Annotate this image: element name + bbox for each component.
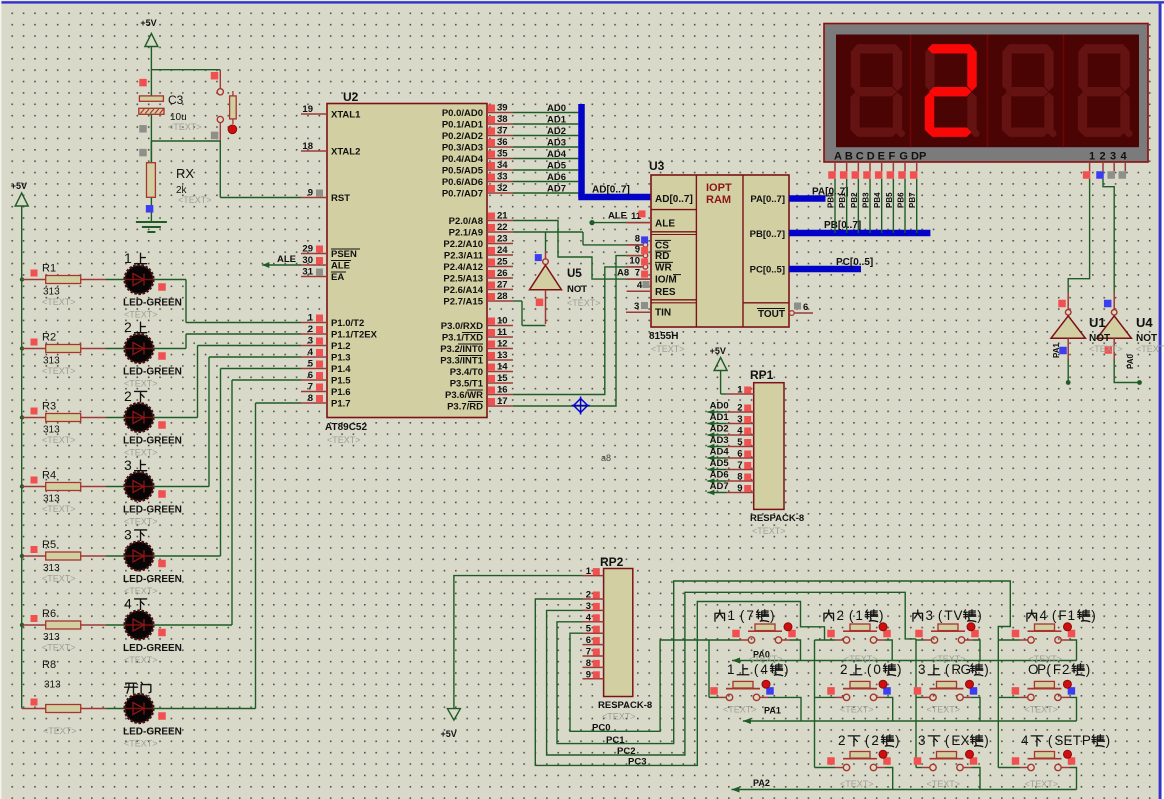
svg-text:ALE: ALE	[608, 211, 627, 222]
svg-text:P2.6/A14: P2.6/A14	[443, 285, 483, 296]
svg-text:8: 8	[586, 658, 591, 669]
svg-text:5: 5	[737, 437, 743, 448]
svg-text:313: 313	[44, 680, 61, 691]
svg-text:P0.0/AD0: P0.0/AD0	[442, 108, 483, 119]
svg-text:7: 7	[746, 608, 754, 623]
svg-text:9: 9	[635, 244, 640, 255]
svg-text:RST: RST	[331, 193, 350, 204]
svg-text:(: (	[1052, 608, 1057, 623]
svg-text:39: 39	[497, 103, 508, 114]
svg-text:+5V: +5V	[11, 181, 27, 191]
svg-text:7: 7	[586, 647, 591, 658]
svg-text:AD4: AD4	[547, 149, 567, 160]
svg-text:13: 13	[497, 350, 508, 361]
svg-text:<TEXT>: <TEXT>	[602, 712, 636, 722]
svg-text:P0.3/AD3: P0.3/AD3	[442, 143, 483, 154]
svg-text:1: 1	[1068, 608, 1076, 623]
svg-text:LED-GREEN: LED-GREEN	[123, 505, 182, 516]
svg-text:E: E	[951, 733, 960, 748]
svg-text:3: 3	[918, 733, 926, 748]
svg-text:(: (	[740, 608, 745, 623]
svg-text:AD2: AD2	[710, 424, 729, 435]
svg-text:P1.1/T2EX: P1.1/T2EX	[331, 330, 378, 341]
svg-text:<TEXT>: <TEXT>	[752, 526, 786, 536]
svg-text:(: (	[1048, 733, 1053, 748]
svg-text:2: 2	[124, 319, 132, 335]
svg-text:1: 1	[855, 608, 863, 623]
svg-text:313: 313	[43, 287, 60, 298]
svg-text:4: 4	[308, 347, 314, 358]
svg-text:RD: RD	[655, 251, 669, 262]
svg-text:PB0: PB0	[827, 192, 836, 208]
svg-text:7: 7	[635, 268, 640, 279]
svg-text:313: 313	[43, 356, 60, 367]
svg-text:19: 19	[302, 104, 313, 115]
svg-text:<TEXT>: <TEXT>	[927, 779, 961, 789]
svg-text:<TEXT>: <TEXT>	[124, 379, 158, 389]
svg-text:24: 24	[497, 245, 508, 256]
svg-text:P2.1/A9: P2.1/A9	[449, 228, 483, 239]
svg-text:AD7: AD7	[547, 184, 566, 195]
svg-text:15: 15	[497, 373, 508, 384]
svg-text:X: X	[961, 733, 970, 748]
svg-text:LED-GREEN: LED-GREEN	[123, 727, 182, 738]
svg-text:AD[0..7]: AD[0..7]	[592, 185, 630, 196]
svg-text:3: 3	[634, 301, 639, 312]
svg-text:P3.5/T1: P3.5/T1	[450, 379, 484, 390]
svg-text:<TEXT>: <TEXT>	[42, 297, 76, 307]
svg-text:<TEXT>: <TEXT>	[1089, 344, 1123, 354]
svg-text:4: 4	[760, 662, 768, 677]
svg-text:7: 7	[737, 460, 742, 471]
svg-text:3: 3	[586, 601, 591, 612]
svg-text:4: 4	[586, 612, 592, 623]
svg-text:<TEXT>: <TEXT>	[1025, 779, 1059, 789]
svg-text:<TEXT>: <TEXT>	[178, 195, 212, 205]
svg-text:a8: a8	[601, 453, 611, 463]
svg-text:AD3: AD3	[547, 138, 566, 149]
svg-text:<TEXT>: <TEXT>	[42, 574, 76, 584]
svg-text:S: S	[1054, 733, 1063, 748]
svg-text:): )	[1106, 733, 1111, 748]
svg-text:): )	[984, 733, 989, 748]
svg-text:LED-GREEN: LED-GREEN	[123, 298, 182, 309]
svg-text:37: 37	[497, 126, 508, 137]
svg-text:1: 1	[727, 662, 735, 677]
svg-text:P0.6/AD6: P0.6/AD6	[442, 177, 483, 188]
svg-text:27: 27	[497, 280, 508, 291]
svg-text:RX: RX	[176, 166, 194, 181]
svg-text:F: F	[1058, 608, 1066, 623]
svg-text:7: 7	[308, 382, 313, 393]
svg-text:P3.1/TXD: P3.1/TXD	[442, 333, 483, 344]
svg-text:(: (	[865, 733, 870, 748]
svg-text:E: E	[1064, 733, 1073, 748]
svg-text:<TEXT>: <TEXT>	[124, 586, 158, 596]
svg-text:2: 2	[737, 403, 742, 414]
svg-text:IO/M: IO/M	[655, 275, 677, 286]
svg-text:16: 16	[497, 385, 508, 396]
svg-text:35: 35	[497, 149, 508, 160]
svg-text:PB[0..7]: PB[0..7]	[750, 229, 785, 240]
svg-text:RES: RES	[655, 287, 676, 298]
svg-text:U3: U3	[649, 159, 665, 173]
svg-text:2: 2	[1062, 662, 1070, 677]
svg-text:6: 6	[586, 635, 591, 646]
svg-text:1: 1	[586, 566, 592, 577]
svg-text:2: 2	[124, 388, 132, 404]
svg-text:3: 3	[926, 608, 934, 623]
svg-text:<TEXT>: <TEXT>	[124, 655, 158, 665]
svg-text:2: 2	[308, 324, 313, 335]
svg-text:AD5: AD5	[710, 458, 730, 469]
svg-text:PA1: PA1	[1052, 342, 1061, 358]
svg-text:2: 2	[837, 608, 845, 623]
svg-text:): )	[895, 733, 900, 748]
svg-text:P3.3/INT1: P3.3/INT1	[440, 356, 483, 367]
svg-text:(: (	[1046, 662, 1051, 677]
svg-text:2: 2	[840, 662, 848, 677]
svg-text:R4: R4	[42, 470, 56, 482]
svg-text:29: 29	[302, 244, 313, 255]
svg-text:4: 4	[124, 596, 132, 612]
svg-text:31: 31	[302, 267, 313, 278]
svg-text:AD5: AD5	[547, 161, 567, 172]
svg-text:AD7: AD7	[710, 481, 729, 492]
svg-text:3: 3	[308, 336, 313, 347]
svg-text:1: 1	[124, 250, 132, 266]
svg-text:8: 8	[635, 233, 640, 244]
svg-text:36: 36	[497, 137, 508, 148]
svg-text:P0.2/AD2: P0.2/AD2	[442, 131, 483, 142]
svg-text:AD6: AD6	[710, 470, 729, 481]
svg-text:R1: R1	[42, 263, 56, 275]
svg-text:NOT: NOT	[1089, 333, 1110, 344]
svg-text:<TEXT>: <TEXT>	[1136, 344, 1164, 354]
svg-text:<TEXT>: <TEXT>	[42, 504, 76, 514]
svg-text:<TEXT>: <TEXT>	[168, 122, 202, 132]
svg-text:<TEXT>: <TEXT>	[927, 704, 961, 714]
svg-text:): )	[879, 608, 884, 623]
svg-text:PC[0..5]: PC[0..5]	[750, 265, 785, 276]
svg-text:C3: C3	[168, 93, 184, 107]
svg-text:P2.0/A8: P2.0/A8	[449, 216, 483, 227]
svg-text:A: A	[834, 151, 842, 163]
svg-text:14: 14	[497, 362, 508, 373]
svg-text:P3.0/RXD: P3.0/RXD	[441, 321, 483, 332]
svg-text:ALE: ALE	[331, 261, 350, 272]
svg-text:<TEXT>: <TEXT>	[840, 704, 874, 714]
svg-text:R3: R3	[42, 401, 56, 413]
svg-text:P0.7/AD7: P0.7/AD7	[442, 189, 483, 200]
svg-text:P: P	[1037, 662, 1046, 677]
svg-text:6: 6	[803, 302, 808, 313]
svg-text:8: 8	[737, 472, 742, 483]
svg-text:PC[0..5]: PC[0..5]	[836, 257, 873, 268]
svg-text:<TEXT>: <TEXT>	[567, 298, 601, 308]
svg-text:2: 2	[586, 590, 591, 601]
svg-text:AD6: AD6	[547, 172, 566, 183]
svg-text:U2: U2	[343, 90, 359, 104]
svg-text:ALE: ALE	[277, 254, 296, 265]
svg-text:F: F	[1053, 662, 1061, 677]
svg-text:4: 4	[1021, 733, 1029, 748]
svg-text:E: E	[878, 151, 885, 163]
svg-text:): )	[784, 662, 789, 677]
svg-text:PA2: PA2	[753, 778, 770, 788]
svg-text:28: 28	[497, 291, 508, 302]
svg-text:313: 313	[43, 632, 60, 643]
svg-text:R2: R2	[42, 332, 56, 344]
svg-text:4: 4	[737, 426, 743, 437]
svg-text:(: (	[945, 733, 950, 748]
svg-text:(: (	[945, 662, 950, 677]
svg-text:NOT: NOT	[1136, 333, 1157, 344]
svg-text:(: (	[867, 662, 872, 677]
svg-text:P2.5/A13: P2.5/A13	[443, 274, 483, 285]
svg-text:U4: U4	[1136, 315, 1153, 330]
svg-text:NOT: NOT	[567, 284, 587, 295]
svg-text:): )	[977, 608, 982, 623]
svg-text:AD2: AD2	[547, 126, 566, 137]
svg-text:TIN: TIN	[655, 308, 671, 319]
svg-text:ALE: ALE	[655, 219, 675, 230]
svg-text:PC0: PC0	[592, 723, 610, 734]
svg-text:<TEXT>: <TEXT>	[42, 366, 76, 376]
svg-text:RP2: RP2	[600, 555, 624, 569]
svg-text:T: T	[1073, 733, 1081, 748]
svg-text:PB2: PB2	[850, 192, 859, 208]
svg-text:3: 3	[124, 527, 132, 543]
svg-text:313: 313	[43, 425, 60, 436]
svg-text:26: 26	[497, 268, 508, 279]
svg-text:P1.5: P1.5	[331, 376, 351, 387]
svg-text:+5V: +5V	[140, 18, 156, 28]
svg-text:): )	[897, 662, 902, 677]
svg-text:<TEXT>: <TEXT>	[42, 435, 76, 445]
svg-text:P3.4/T0: P3.4/T0	[450, 367, 483, 378]
svg-text:V: V	[954, 608, 963, 623]
svg-text:R5: R5	[42, 539, 56, 551]
svg-text:10: 10	[497, 316, 508, 327]
svg-text:B: B	[845, 151, 853, 163]
svg-text:PB5: PB5	[885, 192, 894, 208]
svg-text:+5V: +5V	[710, 346, 726, 356]
svg-text:21: 21	[497, 211, 508, 222]
svg-text:3: 3	[1110, 151, 1116, 163]
svg-text:P: P	[1082, 733, 1091, 748]
svg-text:<TEXT>: <TEXT>	[651, 344, 685, 354]
svg-text:RP1: RP1	[750, 368, 774, 382]
svg-text:P2.7/A15: P2.7/A15	[443, 297, 483, 308]
svg-text:22: 22	[497, 222, 508, 233]
svg-text:AD4: AD4	[710, 447, 730, 458]
svg-text:3: 3	[918, 662, 926, 677]
svg-text:4: 4	[1121, 151, 1128, 163]
svg-text:P1.4: P1.4	[331, 364, 351, 375]
svg-text:4: 4	[637, 280, 643, 291]
svg-text:34: 34	[497, 160, 508, 171]
svg-text:8155H: 8155H	[649, 331, 678, 342]
svg-text:313: 313	[43, 494, 60, 505]
svg-text:D: D	[867, 151, 875, 163]
svg-text:38: 38	[497, 114, 508, 125]
svg-text:6: 6	[737, 449, 742, 460]
svg-text:LED-GREEN: LED-GREEN	[123, 436, 182, 447]
svg-text:1: 1	[737, 385, 743, 396]
svg-text:8: 8	[308, 393, 313, 404]
svg-text:1: 1	[1089, 151, 1095, 163]
svg-text:32: 32	[497, 183, 508, 194]
svg-text:A8: A8	[617, 268, 629, 279]
svg-text:P1.6: P1.6	[331, 387, 351, 398]
svg-text:CS: CS	[655, 240, 669, 251]
svg-text:PC2: PC2	[617, 746, 635, 757]
svg-text:1: 1	[728, 608, 736, 623]
svg-text:P2.3/A11: P2.3/A11	[444, 251, 484, 262]
svg-text:<TEXT>: <TEXT>	[327, 435, 361, 445]
svg-text:RESPACK-8: RESPACK-8	[750, 513, 804, 524]
svg-text:AD0: AD0	[547, 103, 566, 114]
svg-text:): )	[984, 662, 989, 677]
svg-text:LED-GREEN: LED-GREEN	[123, 574, 182, 585]
svg-text:U5: U5	[567, 268, 582, 280]
svg-text:P1.2: P1.2	[331, 341, 351, 352]
svg-text:<TEXT>: <TEXT>	[124, 448, 158, 458]
svg-text:3: 3	[737, 414, 742, 425]
svg-text:): )	[1091, 608, 1096, 623]
svg-text:F: F	[889, 151, 896, 163]
svg-text:LED-GREEN: LED-GREEN	[123, 367, 182, 378]
svg-text:): )	[770, 608, 775, 623]
svg-text:<TEXT>: <TEXT>	[124, 517, 158, 527]
svg-text:<TEXT>: <TEXT>	[124, 739, 158, 749]
svg-text:2: 2	[1100, 151, 1106, 163]
svg-text:313: 313	[43, 563, 60, 574]
svg-text:C: C	[856, 151, 864, 163]
svg-text:T: T	[944, 608, 952, 623]
svg-text:P3.6/WR: P3.6/WR	[445, 390, 483, 401]
svg-text:XTAL1: XTAL1	[331, 110, 361, 121]
svg-text:WR: WR	[655, 262, 672, 273]
svg-text:30: 30	[302, 255, 313, 266]
svg-text:): )	[1086, 662, 1091, 677]
svg-text:PA0: PA0	[1126, 353, 1135, 369]
svg-text:9: 9	[586, 669, 591, 680]
svg-text:<TEXT>: <TEXT>	[840, 779, 874, 789]
svg-text:12: 12	[497, 339, 508, 350]
svg-text:P1.7: P1.7	[331, 399, 351, 410]
svg-text:25: 25	[497, 257, 508, 268]
svg-text:P0.1/AD1: P0.1/AD1	[442, 120, 484, 131]
svg-text:23: 23	[497, 234, 508, 245]
svg-text:XTAL2: XTAL2	[331, 147, 360, 158]
svg-text:RAM: RAM	[706, 194, 731, 206]
svg-text:P2.4/A12: P2.4/A12	[443, 262, 483, 273]
svg-text:(: (	[849, 608, 854, 623]
svg-text:R8: R8	[42, 659, 56, 671]
svg-text:PB1: PB1	[838, 192, 847, 208]
svg-text:P1.3: P1.3	[331, 353, 351, 364]
svg-text:RESPACK-8: RESPACK-8	[598, 700, 652, 711]
svg-text:PA1: PA1	[764, 706, 781, 716]
svg-text:PB7: PB7	[908, 192, 917, 208]
svg-text:PA[0..7]: PA[0..7]	[750, 194, 785, 205]
svg-text:P3.2/INT0: P3.2/INT0	[440, 344, 483, 355]
svg-text:6: 6	[308, 370, 313, 381]
svg-text:PSEN: PSEN	[331, 249, 357, 260]
svg-text:AD[0..7]: AD[0..7]	[655, 194, 693, 205]
svg-text:DP: DP	[911, 151, 926, 163]
svg-text:2: 2	[871, 733, 879, 748]
svg-text:PB[0..7]: PB[0..7]	[824, 220, 861, 231]
svg-text:5: 5	[308, 359, 314, 370]
svg-text:U1: U1	[1089, 315, 1106, 330]
svg-text:P2.2/A10: P2.2/A10	[443, 239, 483, 250]
svg-text:<TEXT>: <TEXT>	[723, 704, 757, 714]
svg-text:AD1: AD1	[710, 412, 730, 423]
svg-text:AD1: AD1	[547, 115, 567, 126]
svg-text:<TEXT>: <TEXT>	[1024, 704, 1058, 714]
svg-text:<TEXT>: <TEXT>	[42, 643, 76, 653]
svg-text:1: 1	[308, 313, 314, 324]
svg-text:TOUT: TOUT	[758, 309, 785, 320]
svg-text:PC1: PC1	[606, 735, 625, 746]
svg-text:R6: R6	[42, 608, 56, 620]
svg-text:18: 18	[302, 141, 313, 152]
svg-text:P3.7/RD: P3.7/RD	[447, 402, 483, 413]
svg-text:P0.4/AD4: P0.4/AD4	[442, 154, 484, 165]
svg-text:0: 0	[873, 662, 881, 677]
svg-text:G: G	[961, 662, 972, 677]
svg-text:PB4: PB4	[873, 192, 882, 208]
svg-text:AT89C52: AT89C52	[325, 422, 367, 433]
svg-text:33: 33	[497, 172, 508, 183]
svg-text:(: (	[938, 608, 943, 623]
svg-text:2: 2	[838, 733, 846, 748]
svg-text:(: (	[754, 662, 759, 677]
svg-text:<TEXT>: <TEXT>	[124, 310, 158, 320]
svg-text:P1.0/T2: P1.0/T2	[331, 318, 364, 329]
svg-text:<TEXT>: <TEXT>	[43, 726, 77, 736]
svg-text:+5V: +5V	[441, 729, 457, 739]
svg-text:PB3: PB3	[862, 192, 871, 208]
svg-text:3: 3	[124, 457, 132, 473]
svg-text:11: 11	[497, 327, 508, 338]
svg-text:10: 10	[629, 255, 640, 266]
svg-text:9: 9	[308, 188, 313, 199]
svg-text:5: 5	[586, 624, 592, 635]
svg-text:G: G	[899, 151, 908, 163]
svg-text:PC3: PC3	[628, 757, 646, 768]
svg-text:IOPT: IOPT	[706, 182, 732, 194]
svg-text:LED-GREEN: LED-GREEN	[123, 643, 182, 654]
svg-text:4: 4	[1040, 608, 1048, 623]
svg-text:AD3: AD3	[710, 435, 729, 446]
svg-text:P0.5/AD5: P0.5/AD5	[442, 166, 484, 177]
svg-text:9: 9	[737, 483, 742, 494]
svg-text:EA: EA	[331, 272, 344, 283]
svg-text:AD0: AD0	[710, 401, 729, 412]
svg-text:17: 17	[497, 396, 508, 407]
svg-text:PB6: PB6	[897, 192, 906, 208]
